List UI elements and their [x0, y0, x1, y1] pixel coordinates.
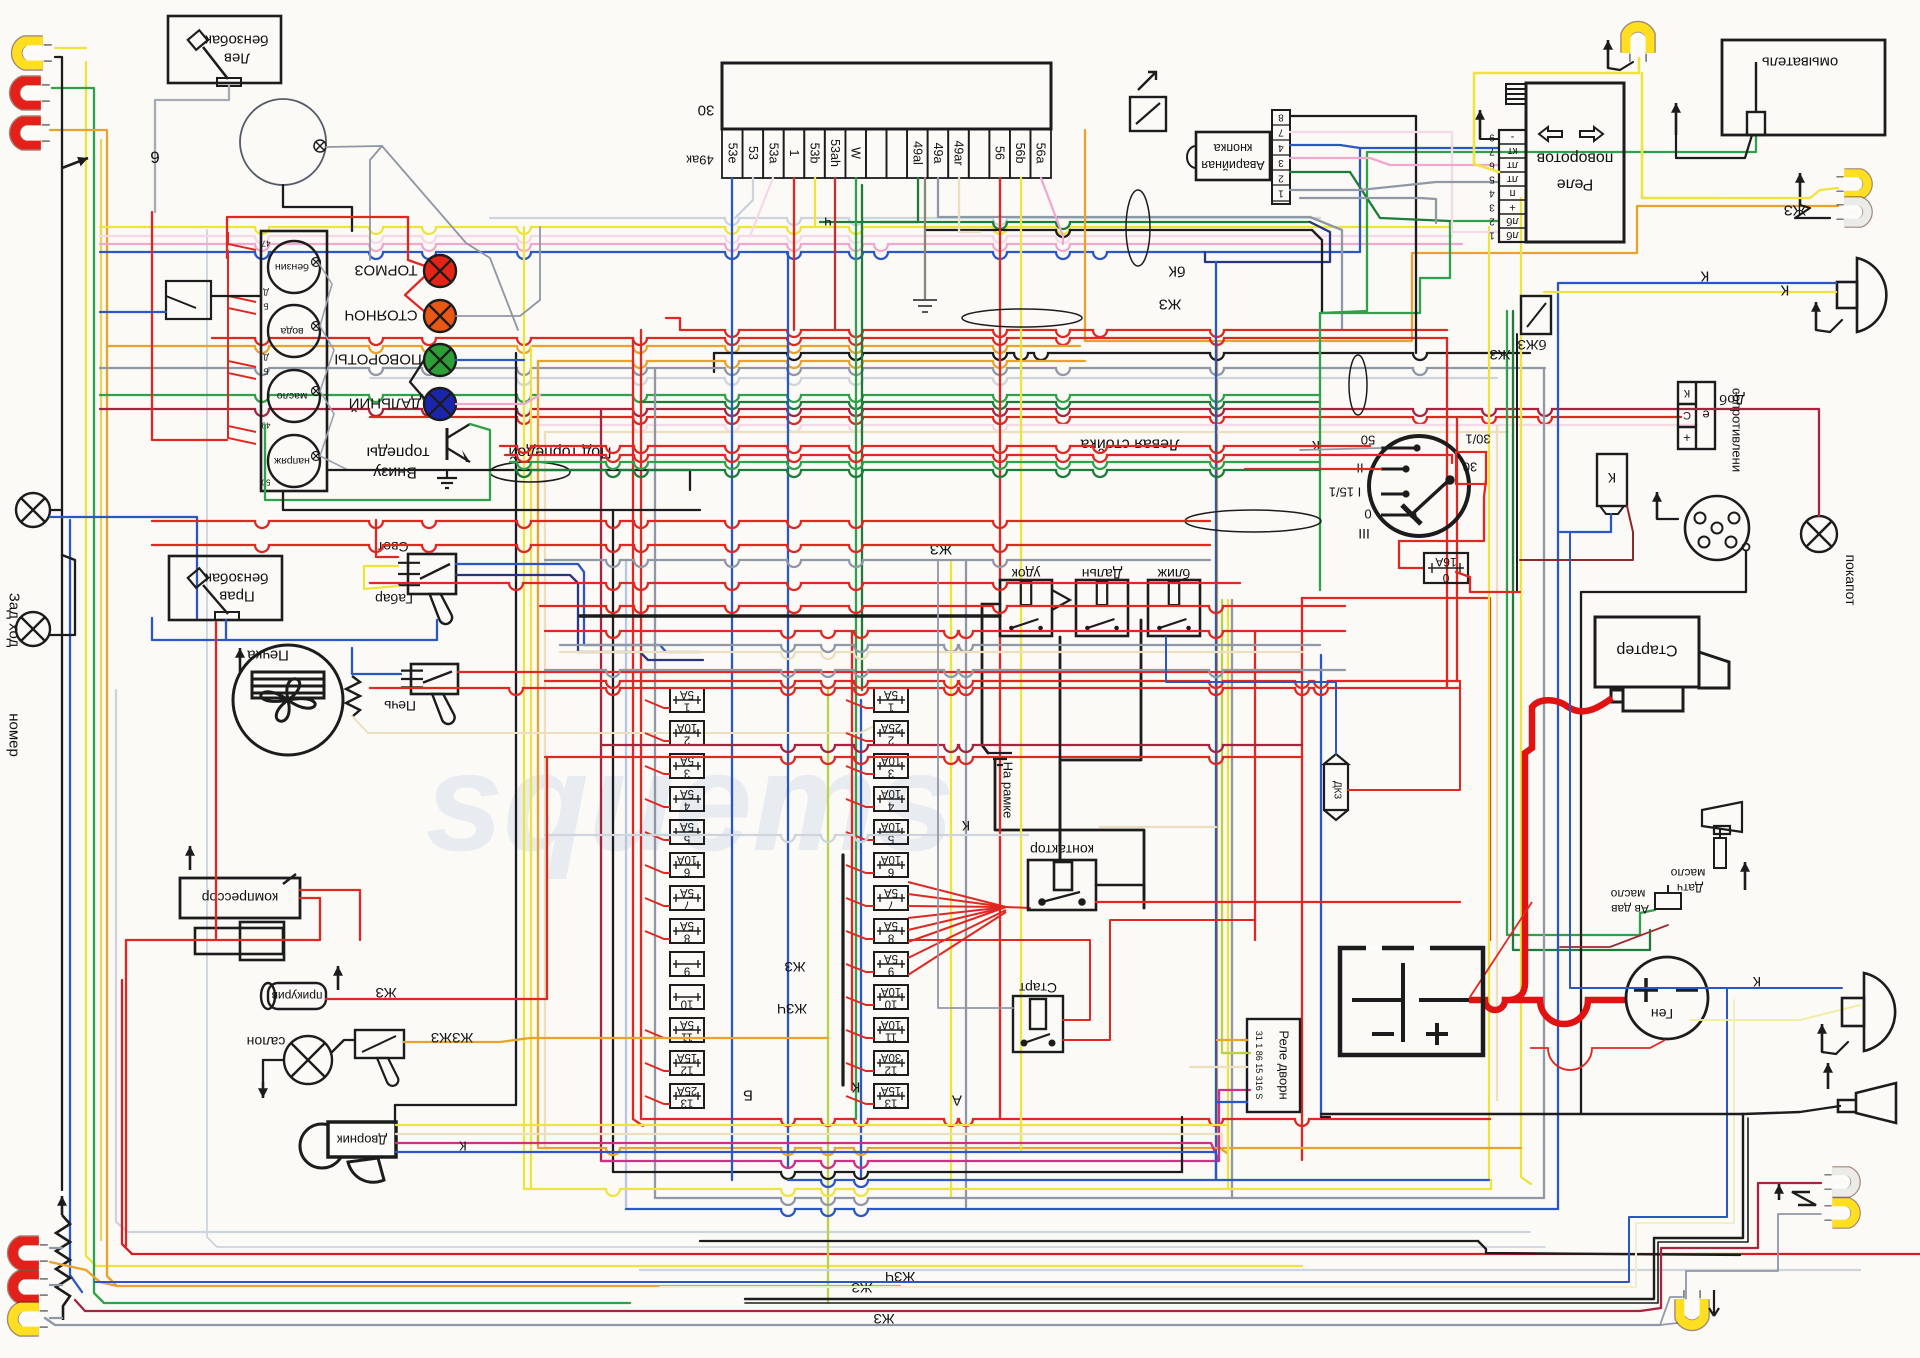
wire pin 53a palepink: [750, 178, 773, 236]
wire black vertical x1517: [1516, 334, 1518, 592]
wire gray vertical x1544: [1543, 368, 1545, 1197]
wire black frame loop: [995, 760, 1144, 908]
wire palegray bus y835: [545, 835, 1028, 842]
wire left yellow vertical: [86, 62, 1302, 1266]
lamp bottom-left yellow: [13, 1307, 48, 1330]
wire gray bus y560: [545, 560, 1210, 567]
fuse left 6: [670, 853, 704, 877]
wire red 30 loop: [1399, 480, 1486, 541]
svg-text:25А: 25А: [880, 721, 901, 733]
wire nomer lead: [50, 555, 75, 635]
wire gray bottom lamp: [1660, 1297, 1682, 1325]
wire knopka green: [1290, 172, 1450, 221]
wire gray bus y217: [960, 216, 1310, 218]
svg-text:Б: Б: [263, 302, 268, 311]
wire orange vertical x1217: [1217, 341, 1227, 1153]
fuse left 9: [670, 952, 704, 976]
wire black y1241 corner: [1478, 1241, 1740, 1255]
svg-text:ЖЗ: ЖЗ: [375, 985, 396, 1001]
arrow washer: [1671, 103, 1681, 135]
wire red vertical x1457: [1456, 417, 1458, 681]
wire blue bus y1209: [626, 1209, 1558, 1216]
svg-text:ЖЗ: ЖЗ: [873, 1311, 894, 1327]
switch instrument left: [166, 281, 211, 319]
connector pin cells: [722, 129, 743, 178]
ignition lever: [1402, 476, 1454, 524]
wire palegray bus y218: [490, 218, 1320, 225]
svg-text:10А: 10А: [880, 754, 901, 766]
wire yellow lamp lead: [55, 47, 86, 49]
lamp yellow top right: [1626, 27, 1649, 62]
arrow kompressor: [185, 846, 195, 870]
svg-text:прикурив: прикурив: [272, 989, 323, 1003]
wire red vertical x216: [215, 622, 217, 940]
wire black vertical x516: [395, 353, 516, 1105]
svg-text:47: 47: [261, 239, 270, 248]
svg-text:ТОРМОЗ: ТОРМОЗ: [354, 262, 417, 279]
svg-text:5А: 5А: [680, 886, 694, 898]
wire green vertical x1320: [1319, 313, 1321, 590]
svg-text:масло: масло: [277, 390, 308, 402]
fuse right 9: [874, 952, 908, 976]
fuse left 13: [670, 1084, 704, 1108]
wire yellow dvornik: [396, 1125, 1228, 1150]
svg-text:1: 1: [1489, 230, 1495, 241]
svg-text:7: 7: [684, 899, 690, 911]
wire pin 53b yellow: [814, 178, 816, 227]
svg-text:лт: лт: [1507, 159, 1518, 171]
svg-text:13: 13: [681, 1097, 694, 1109]
box kompressor: [180, 878, 300, 918]
fuse right 11: [874, 1018, 908, 1042]
svg-text:8: 8: [1278, 112, 1284, 123]
svg-text:11: 11: [681, 1031, 693, 1043]
wire palegray bus y1270: [640, 1269, 1860, 1271]
wire orange salon switch: [404, 1038, 828, 1042]
lamp rear-left yellow: [17, 41, 52, 64]
svg-text:кт: кт: [1508, 145, 1518, 157]
clock circle: [240, 99, 326, 185]
knopka bulb nub: [1187, 146, 1196, 168]
wire darkgreen bus y222: [820, 222, 1310, 229]
knopka connector strip: [1272, 110, 1290, 204]
svg-text:53e: 53e: [725, 143, 739, 164]
svg-text:30/1: 30/1: [1465, 432, 1490, 447]
svg-text:8: 8: [888, 932, 894, 944]
svg-text:56b: 56b: [1013, 143, 1027, 164]
wire gray bus y368: [100, 368, 1545, 375]
wire gray lamp staircase: [1660, 1214, 1821, 1325]
svg-text:30А: 30А: [880, 1051, 901, 1063]
fuse right 4: [874, 787, 908, 811]
red fan contactor: [908, 882, 1006, 907]
lamp POVOROTY: [424, 344, 456, 376]
wire red bus y455: [505, 455, 1452, 462]
fuse left 4: [670, 787, 704, 811]
fuse left 2: [670, 721, 704, 745]
relay Gudok: [1000, 580, 1052, 636]
wire black kontaktor right: [1096, 885, 1144, 908]
svg-text:ЖЗ: ЖЗ: [930, 541, 953, 558]
svg-text:31 1 86 15 316 S: 31 1 86 15 316 S: [1254, 1031, 1264, 1100]
wire yellowgreen rele dvorn: [1222, 1052, 1247, 1054]
wire yellow vertical x524: [523, 227, 525, 1189]
wire pin 1 red: [793, 178, 795, 330]
svg-text:53b: 53b: [808, 143, 822, 164]
wire black lamp bracket: [55, 57, 62, 168]
arrow headlight tr: [1811, 302, 1821, 330]
svg-text:бензобак: бензобак: [205, 570, 269, 587]
sensor Av dav maslo: [1655, 885, 1681, 909]
svg-text:бензобак: бензобак: [205, 32, 269, 49]
red feeds right fuse column: [846, 700, 874, 708]
fuel sender lever left tank: [188, 30, 241, 86]
wire yellowgreen vertical x828: [827, 690, 829, 1303]
wire yellow y1189 up: [1490, 1180, 1492, 1189]
svg-text:30: 30: [1463, 460, 1477, 475]
fuse right 1: [874, 688, 908, 712]
wire red bus y757: [545, 757, 1302, 764]
lamp right mid yellow: [1836, 174, 1867, 195]
svg-text:5А: 5А: [884, 886, 898, 898]
wire left crimson vertical: [122, 980, 1920, 1254]
svg-text:7: 7: [888, 899, 894, 911]
svg-text:Б: Б: [743, 1087, 753, 1104]
fuel sender lever right tank: [188, 568, 239, 620]
wire yellow svet loop: [364, 566, 398, 589]
box instrument cluster: [261, 231, 327, 491]
wire maroon bus y409: [100, 409, 1692, 416]
wire pin 56 red: [999, 178, 1001, 1119]
wire red bus y681: [545, 681, 1460, 688]
svg-text:5А: 5А: [884, 688, 898, 700]
wire red to tormoz: [408, 260, 425, 266]
svg-text:10А: 10А: [676, 853, 697, 865]
wire K gray ignition: [1300, 448, 1381, 450]
fuse left 3: [670, 754, 704, 778]
svg-text:ЖЗ: ЖЗ: [784, 959, 805, 975]
wire blue headlight2: [1570, 532, 1842, 988]
wire knopka gray2: [1300, 198, 1436, 223]
wire darkgreen bus y470: [515, 470, 1320, 477]
gauge napryazh: [268, 435, 320, 487]
wire gray gauge pin chain: [318, 262, 348, 470]
wire palepink bus y236: [100, 236, 1452, 243]
wire yellow bus y227: [100, 227, 1452, 234]
lamp right mid white: [1836, 202, 1867, 223]
wire red start loop: [910, 940, 1090, 1020]
wire black horn: [1321, 1113, 1743, 1115]
wire black distributor down: [1581, 551, 1746, 1113]
svg-text:Аварийная: Аварийная: [1201, 158, 1264, 172]
harness ellipse top right: [1126, 190, 1150, 266]
svg-text:бЖЗ: бЖЗ: [1517, 337, 1546, 353]
wire cream dvornik: [396, 1134, 1222, 1145]
clock bulb: [314, 140, 326, 152]
wire red kompressor: [126, 898, 320, 1246]
svg-text:удок: удок: [1011, 566, 1040, 582]
wire bl lamp3 lead: [50, 1317, 62, 1319]
wire yellow vertical x951: [950, 560, 952, 1197]
wire green washer path: [1320, 135, 1756, 313]
wire red vertical x1447: [1446, 338, 1448, 688]
wire salon black: [263, 1060, 284, 1082]
switch Pech: [401, 664, 458, 724]
wire paleblue vertical x626: [625, 560, 627, 1209]
wire yellow relay right side: [1642, 73, 1720, 198]
svg-text:0: 0: [1442, 571, 1449, 585]
fuse left 8: [670, 919, 704, 943]
wire blue prav tank: [152, 618, 437, 640]
distributor: [1685, 496, 1749, 560]
svg-text:2: 2: [1489, 216, 1495, 227]
washer pump plug: [1747, 62, 1765, 135]
svg-text:Ген: Ген: [1651, 1006, 1673, 1022]
svg-text:49al: 49al: [910, 141, 924, 165]
svg-text:Старт: Старт: [1018, 980, 1057, 996]
svg-text:4: 4: [683, 800, 690, 812]
wire black horn staircase2: [745, 1118, 1748, 1303]
wire zad hod lead: [50, 517, 197, 618]
box Avariynaya knopka: [1196, 132, 1270, 180]
wire maroon bus y745: [601, 745, 1302, 752]
wire darkgreen bus y402: [640, 402, 1320, 409]
wire black kontaktor net: [1059, 745, 1062, 860]
arrow prikuriv: [333, 966, 343, 990]
wire orange vertical x538: [538, 361, 548, 1148]
fuse right 7: [874, 886, 908, 910]
wire red kontaktor out: [1096, 901, 1460, 903]
svg-text:5А: 5А: [884, 919, 898, 931]
wire blue vertical x1321: [1320, 655, 1322, 1117]
svg-text:10А: 10А: [676, 721, 697, 733]
wire cream bus y827: [1100, 826, 1216, 828]
svg-text:30: 30: [698, 102, 715, 119]
wire tank sender gray: [155, 86, 229, 212]
fuse right 5: [874, 820, 908, 844]
svg-text:Дворник: Дворник: [337, 1133, 387, 1148]
fuse left 12: [670, 1051, 704, 1075]
arrow bottom yellow lamp: [1709, 1290, 1719, 1316]
gudok arrow contact: [1052, 590, 1070, 610]
wire left black vertical: [61, 168, 63, 1190]
box Lev benzobak: [168, 16, 281, 83]
wire pin 53 gray: [735, 178, 753, 218]
wire cream bus y432: [545, 431, 1508, 433]
fuse left 7: [670, 886, 704, 910]
wire magenta bus y1161: [601, 1161, 1219, 1168]
svg-text:2: 2: [684, 734, 690, 746]
lamp TORMOZ: [424, 255, 456, 287]
wire black bus y1172: [613, 1172, 1182, 1179]
connector block main: [722, 63, 1051, 129]
wire red bus y631: [545, 631, 1345, 638]
wire magenta dvornik: [396, 1143, 1219, 1161]
switch salon: [355, 1030, 404, 1086]
svg-text:5А: 5А: [680, 820, 694, 832]
gauge voda pin: [312, 322, 321, 331]
wire gray stoyanoch lead: [456, 227, 540, 316]
wire green vertical x1513: [1513, 311, 1650, 950]
svg-text:4: 4: [1278, 142, 1284, 153]
gauge maslo pin: [312, 387, 321, 396]
wire yellow lamp top right: [1474, 58, 1639, 172]
svg-text:Датч: Датч: [1677, 881, 1703, 895]
wire red vertical x1255: [1254, 631, 1256, 940]
wire rele arrow base: [1480, 138, 1499, 140]
wire blue svet right1: [456, 564, 700, 652]
wire orange bus y346: [107, 346, 1080, 353]
wire black drop right: [1312, 230, 1322, 313]
fuse right 10: [874, 985, 908, 1009]
wire red contactor to fan: [1006, 907, 1030, 908]
svg-text:Б: Б: [263, 367, 268, 376]
svg-text:W: W: [849, 147, 863, 159]
wire pin 49ar cream: [959, 178, 980, 232]
lamp STOYANOCH: [424, 300, 456, 332]
wire red tormoz-stoyanoch zig: [405, 276, 425, 312]
svg-text:Реле: Реле: [1557, 176, 1594, 193]
rele povorotov heatsink fins: [1506, 84, 1526, 104]
wire palegray vertical x207: [207, 230, 1545, 1247]
lamp pokapot: [1801, 516, 1837, 552]
svg-text:А: А: [952, 1092, 962, 1109]
svg-text:+: +: [1683, 431, 1691, 446]
red feeds left fuse column: [645, 700, 670, 708]
wire red2 lamp orange lead: [50, 130, 107, 140]
svg-text:масло: масло: [1670, 866, 1705, 880]
box Starter: [1595, 617, 1729, 711]
wire red kompressor top: [300, 890, 360, 940]
wire green bus y462: [510, 462, 1320, 469]
wire headlight br arrow: [1822, 1042, 1848, 1054]
svg-text:15А: 15А: [880, 1084, 901, 1096]
arrow yellow top lamp: [1603, 40, 1613, 68]
wire orange relay down: [1217, 206, 1838, 341]
wire red start loop2: [1063, 920, 1255, 1040]
fuse right 2: [874, 721, 908, 745]
fuse right 12: [874, 1051, 908, 1075]
svg-text:12: 12: [885, 1064, 898, 1076]
svg-text:9: 9: [1489, 132, 1495, 143]
gauge napryazh pin: [312, 452, 321, 461]
resistor chain bottom-left: [56, 1215, 70, 1320]
svg-text:III: III: [1358, 526, 1370, 542]
wire maroon lamp staircase: [1640, 1183, 1821, 1311]
box Rele povorotov: [1526, 83, 1624, 242]
wire red ignition II: [1245, 468, 1381, 470]
wire blue povoroty: [456, 359, 524, 361]
wire red fuse16 right: [1456, 572, 1520, 592]
wire red loop instruments: [227, 217, 408, 260]
transistor symbol: [447, 424, 470, 462]
wire pin 53ah darkred: [834, 178, 836, 330]
wire orange bus y361: [538, 361, 1085, 368]
coil K base: [1600, 506, 1624, 514]
svg-text:ЖЗЖЗ: ЖЗЖЗ: [431, 1030, 473, 1046]
wire black horn vert: [1321, 1116, 1330, 1118]
svg-text:49ак: 49ак: [686, 153, 714, 168]
svg-text:ч: ч: [824, 214, 832, 231]
svg-text:покапот: покапот: [1843, 554, 1859, 606]
box Prav benzobak: [169, 556, 282, 620]
wire red bus y330 left hook: [666, 318, 680, 330]
red feeds instrument pins: [228, 232, 256, 250]
small horn right: [1702, 802, 1742, 834]
box coil K: [1597, 454, 1627, 506]
wire red bus y417: [370, 417, 1681, 424]
svg-text:СТОЯНОЧ: СТОЯНОЧ: [344, 307, 417, 324]
wire switch blue drop: [100, 311, 166, 313]
arrow salon: [258, 1082, 268, 1098]
wire red bus y338: [212, 338, 1447, 345]
wire gray vertical x966: [965, 560, 967, 1207]
wire pin W darkgreen: [861, 185, 863, 690]
wire darkred av dav maslo: [1560, 925, 1668, 947]
lamp Zad hod: [16, 493, 50, 527]
svg-text:56a: 56a: [1034, 143, 1048, 164]
svg-text:5А: 5А: [680, 1018, 694, 1030]
svg-text:ДАЛЬНИЙ: ДАЛЬНИЙ: [349, 395, 422, 413]
wire black bus y230: [925, 230, 1312, 237]
generator Gen: [1626, 957, 1708, 1039]
svg-text:I 15/1: I 15/1: [1329, 485, 1362, 500]
arrow pechka: [235, 648, 245, 672]
wire black gudok link: [982, 603, 1000, 606]
wire orange bus y1148: [545, 1148, 1521, 1155]
wire switch black to cluster: [211, 295, 261, 297]
lamp bottom-left red 2: [13, 1275, 48, 1298]
wire cream vertical x1497: [1496, 425, 1498, 1100]
svg-text:1: 1: [1278, 188, 1284, 199]
wire pin9 gray ground: [924, 178, 926, 300]
gauge maslo: [268, 370, 320, 422]
svg-text:56: 56: [993, 146, 1007, 160]
wire green vertical x1222: [1222, 600, 1250, 1053]
wire black vertical x1060: [1059, 637, 1062, 745]
svg-text:номер: номер: [6, 713, 23, 757]
wire pale gen lead: [1690, 1005, 1860, 1020]
wire orange rele dvorn: [1217, 1039, 1247, 1041]
wire red bus y1119: [643, 1119, 1490, 1126]
wire red bus y446: [500, 446, 1370, 453]
svg-text:3: 3: [1489, 202, 1495, 213]
svg-text:4: 4: [887, 800, 894, 812]
wire distributor arrow base: [1657, 518, 1678, 520]
svg-text:Лев: Лев: [224, 50, 250, 67]
ground symbol under transistor: [437, 470, 457, 488]
wire left palegray vertical: [116, 690, 1530, 1232]
switch Svet Gabar: [398, 554, 456, 624]
wire cream pech: [352, 716, 874, 733]
wire maroon bottom: [75, 1300, 1640, 1311]
fuse right 8: [874, 919, 908, 943]
arrow distributor: [1652, 492, 1662, 519]
svg-text:16А: 16А: [1435, 555, 1456, 569]
wire darkred coil: [1520, 506, 1633, 560]
wire clock diag gray: [326, 146, 518, 330]
fuse left 11: [670, 1018, 704, 1042]
svg-text:-: -: [1510, 131, 1514, 143]
wire maroon vertical x601: [601, 409, 611, 1161]
lamp bottom-left red 1: [13, 1241, 48, 1264]
arrow horn: [1823, 1063, 1833, 1089]
wire pin 49a gray: [938, 178, 960, 217]
svg-text:11: 11: [885, 1031, 897, 1043]
wire yellow bus y1189: [524, 1189, 1491, 1196]
arrow right mid lamps: [1795, 173, 1805, 205]
svg-text:ЖЗ: ЖЗ: [1159, 296, 1182, 313]
